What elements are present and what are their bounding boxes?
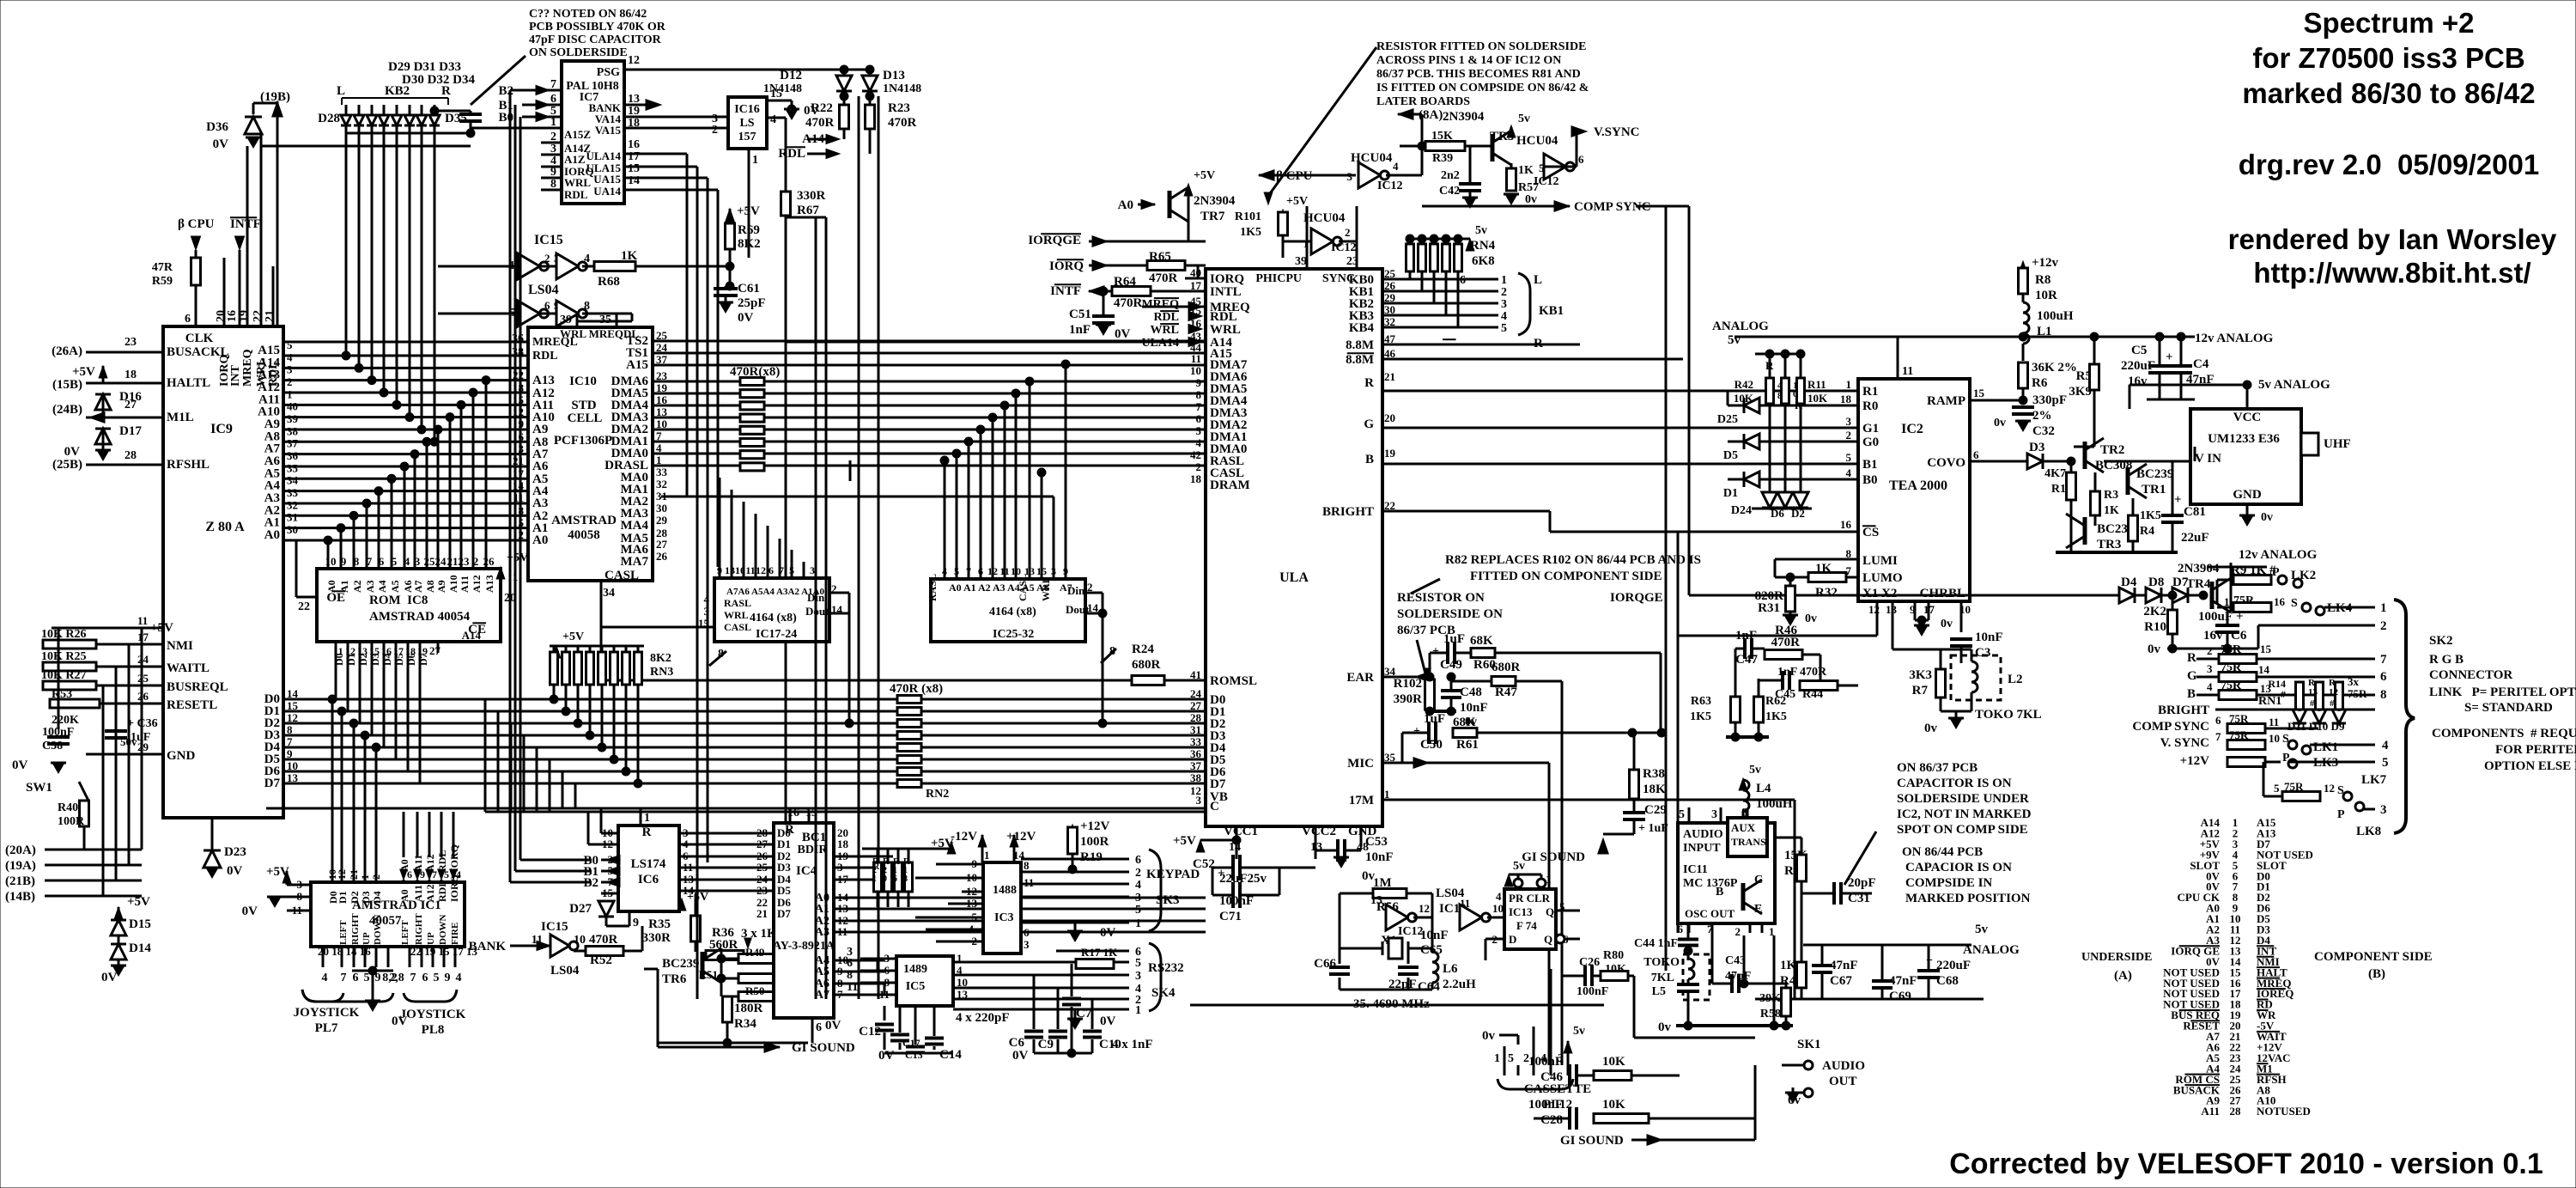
svg-text:10: 10 [2269,732,2280,745]
svg-text:A11: A11 [412,885,424,902]
svg-text:4: 4 [770,113,776,126]
svg-text:180R: 180R [734,1002,763,1015]
svg-text:R3: R3 [2104,489,2118,502]
svg-text:23: 23 [459,555,471,568]
svg-text:37: 37 [1190,759,1202,772]
svg-text:+12V: +12V [1080,819,1110,833]
svg-text:10: 10 [574,934,586,947]
svg-text:CASSETTE: CASSETTE [1524,1082,1591,1096]
svg-text:L4: L4 [1756,782,1771,795]
svg-text:20pF: 20pF [1848,876,1876,890]
svg-text:M1L: M1L [167,411,194,424]
svg-text:36: 36 [512,332,524,345]
svg-text:47pF DISC CAPACITOR: 47pF DISC CAPACITOR [529,34,662,46]
svg-text:0V: 0V [227,864,243,878]
svg-text:C50: C50 [1420,738,1443,752]
svg-text:MA7: MA7 [621,555,649,569]
svg-text:LEFT: LEFT [400,920,410,945]
svg-text:C28: C28 [1540,1113,1563,1127]
svg-text:6: 6 [769,564,774,576]
svg-text:A7: A7 [412,580,424,593]
svg-text:0V: 0V [1012,1049,1029,1063]
svg-text:18: 18 [1840,393,1852,405]
svg-text:IORQGE: IORQGE [1610,591,1663,605]
svg-text:R1: R1 [2051,483,2066,496]
svg-text:L: L [337,84,345,98]
svg-text:C13: C13 [905,1049,923,1061]
svg-text:B: B [2187,687,2196,701]
svg-text:A0: A0 [1118,198,1133,212]
svg-text:C51: C51 [1069,308,1091,321]
svg-text:A0: A0 [532,533,548,547]
svg-text:Q: Q [1544,933,1552,946]
svg-text:TR7: TR7 [1200,210,1225,223]
svg-text:16: 16 [226,310,239,322]
svg-text:C53: C53 [1365,835,1388,849]
svg-text:2,8: 2,8 [389,972,404,984]
svg-text:C6: C6 [1009,1036,1025,1050]
svg-text:8: 8 [1777,391,1783,401]
svg-text:C81: C81 [2184,505,2206,519]
svg-text:RS232: RS232 [1148,961,1184,975]
svg-text:DOWN: DOWN [438,915,448,946]
svg-text:G: G [1364,417,1374,431]
svg-text:28: 28 [2230,1105,2242,1118]
svg-text:IC16: IC16 [734,103,760,116]
svg-text:FITTED ON COMPONENT SIDE: FITTED ON COMPONENT SIDE [1470,570,1662,583]
svg-text:A12: A12 [471,575,483,593]
svg-text:HCU04: HCU04 [1516,134,1558,148]
svg-text:1488: 1488 [993,884,1017,897]
svg-text:rendered by Ian Worsley: rendered by Ian Worsley [2228,223,2557,255]
svg-text:Corrected by VELESOFT 2010 - v: Corrected by VELESOFT 2010 - version 0.1 [1949,1148,2543,1180]
svg-text:34: 34 [287,474,299,487]
svg-text:TOKO 7KL: TOKO 7KL [1975,708,2042,722]
svg-text:A0: A0 [325,580,337,593]
svg-text:LK7: LK7 [2361,773,2387,787]
svg-text:UNDERSIDE: UNDERSIDE [2081,951,2152,964]
svg-text:1K5: 1K5 [2140,509,2161,522]
svg-text:(19A): (19A) [5,859,36,873]
svg-text:12: 12 [336,869,348,880]
svg-text:41: 41 [1190,668,1201,681]
svg-text:100nF: 100nF [1528,1098,1563,1112]
svg-text:16: 16 [1840,518,1852,531]
svg-text:BUSACKL: BUSACKL [167,345,229,359]
svg-text:IS FITTED ON COMPSIDE ON 86/42: IS FITTED ON COMPSIDE ON 86/42 & [1376,82,1589,94]
svg-text:A6: A6 [532,460,549,473]
svg-text:28: 28 [125,449,137,462]
svg-text:(14B): (14B) [5,890,35,904]
svg-text:C9: C9 [1038,1038,1054,1051]
svg-text:RN3: RN3 [650,666,673,679]
svg-text:D3: D3 [777,861,791,874]
svg-text:IC6: IC6 [638,873,659,886]
svg-text:R68: R68 [598,275,620,289]
svg-text:10: 10 [735,564,745,576]
svg-text:Spectrum +2: Spectrum +2 [2304,7,2475,39]
svg-text:G: G [2187,669,2197,683]
svg-text:D1: D1 [777,838,791,850]
svg-text:6: 6 [893,874,897,884]
svg-text:RESISTOR FITTED ON SOLDERSIDE: RESISTOR FITTED ON SOLDERSIDE [1376,40,1586,53]
svg-text:R0: R0 [1862,399,1878,413]
svg-text:LK2: LK2 [2291,569,2316,582]
svg-text:X1 X2: X1 X2 [1862,587,1897,600]
svg-text:12v ANALOG: 12v ANALOG [2239,548,2318,562]
svg-text:330R: 330R [642,931,671,945]
svg-text:MARKED POSITION: MARKED POSITION [1905,892,2031,905]
svg-text:15: 15 [2260,643,2272,655]
svg-text:TR4: TR4 [2186,577,2211,591]
svg-text:Z 80 A: Z 80 A [205,520,245,534]
svg-text:8: 8 [1196,388,1202,401]
svg-text:17: 17 [393,645,404,657]
svg-text:36: 36 [1190,747,1202,760]
svg-text:HCU04: HCU04 [1303,211,1346,225]
svg-text:R52: R52 [590,953,612,967]
svg-text:MIC: MIC [1347,757,1374,771]
svg-text:10K: 10K [1807,392,1828,405]
svg-text:RFSHL: RFSHL [167,458,210,472]
svg-text:7: 7 [367,555,373,568]
svg-text:4K7: 4K7 [2044,467,2066,480]
svg-text:0: 0 [883,874,887,884]
svg-text:25: 25 [756,861,769,874]
svg-text:470R: 470R [1114,296,1143,310]
svg-text:5: 5 [2274,782,2280,795]
svg-text:25: 25 [137,672,149,685]
svg-text:33: 33 [287,486,299,499]
svg-text:GI SOUND: GI SOUND [1560,1134,1624,1148]
svg-text:A5: A5 [389,580,401,593]
svg-text:11: 11 [333,645,343,657]
svg-text:A10: A10 [447,575,459,593]
svg-text:12: 12 [1419,902,1430,915]
svg-text:29: 29 [656,514,668,527]
svg-text:470R: 470R [1771,636,1801,649]
svg-text:1: 1 [359,874,371,880]
svg-text:R8: R8 [2035,273,2050,287]
svg-text:0v: 0v [1482,1029,1496,1043]
svg-text:IC3: IC3 [994,911,1014,924]
svg-text:A0: A0 [264,528,280,542]
svg-text:20 18 14 16: 20 18 14 16 [318,945,371,958]
svg-text:36: 36 [287,449,299,462]
svg-text:2: 2 [1846,429,1852,442]
svg-text:TR1: TR1 [2142,483,2166,497]
svg-text:C48: C48 [1460,685,1482,699]
svg-text:18K: 18K [1643,783,1666,796]
svg-text:NOTUSED: NOTUSED [2257,1105,2311,1118]
svg-text:LK8: LK8 [2356,825,2381,838]
svg-text:A0: A0 [398,889,410,902]
svg-text:OPTION ELSE NOT: OPTION ELSE NOT [2484,759,2576,773]
svg-text:ON 86/44 PCB: ON 86/44 PCB [1902,845,1983,859]
svg-text:R32: R32 [1815,586,1838,600]
svg-text:R: R [642,826,652,839]
svg-text:RAMP: RAMP [1927,394,1965,408]
svg-text:25pF: 25pF [738,296,766,310]
svg-text:R31: R31 [1758,601,1780,615]
svg-text:+12v: +12v [2032,256,2059,270]
svg-text:1: 1 [1135,1004,1141,1017]
svg-text:LS04: LS04 [550,964,580,978]
svg-text:0V: 0V [1100,1014,1116,1028]
svg-text:4: 4 [287,350,293,363]
svg-text:33: 33 [1190,735,1202,748]
svg-text:1: 1 [644,812,650,825]
svg-text:4: 4 [1777,381,1783,391]
svg-text:WAITL: WAITL [167,661,210,675]
svg-text:RDL: RDL [436,880,448,902]
svg-text:COMPSIDE IN: COMPSIDE IN [1905,876,1992,890]
svg-text:RDL: RDL [564,188,588,201]
svg-text:6: 6 [422,972,428,984]
svg-text:R47: R47 [1495,685,1517,699]
svg-text:A14: A14 [462,629,482,642]
svg-text:D14: D14 [129,941,151,955]
svg-text:4: 4 [1496,890,1502,903]
svg-text:27: 27 [756,838,769,850]
svg-text:220K: 220K [52,714,79,727]
svg-text:R61: R61 [1456,738,1479,752]
svg-text:IC9: IC9 [210,422,233,436]
svg-text:S= STANDARD: S= STANDARD [2464,701,2553,715]
svg-text:5v: 5v [1975,923,1989,936]
svg-text:(21B): (21B) [5,874,35,888]
svg-text:27: 27 [1190,699,1202,712]
svg-text:26: 26 [137,690,149,703]
svg-text:2K2: 2K2 [2143,605,2166,618]
svg-text:D5: D5 [1723,449,1738,462]
svg-text:5v: 5v [1518,113,1530,125]
svg-text:0v: 0v [2261,511,2273,524]
svg-text:GND: GND [2233,488,2262,502]
svg-text:1N4148: 1N4148 [883,82,921,95]
svg-text:3: 3 [1347,170,1353,183]
svg-text:LS174: LS174 [631,857,666,871]
svg-text:C26: C26 [1579,956,1600,969]
svg-text:INTF: INTF [230,217,261,231]
svg-text:R1: R1 [1862,385,1878,399]
svg-text:TR3: TR3 [2097,538,2121,551]
svg-text:7: 7 [341,972,347,984]
svg-text:100uH: 100uH [1756,797,1793,811]
svg-text:#: # [2310,698,2315,709]
svg-text:CASL: CASL [724,621,751,633]
svg-text:21: 21 [348,869,360,880]
svg-text:B: B [1365,453,1374,466]
svg-text:INPUT: INPUT [1683,842,1721,855]
svg-text:D3: D3 [360,891,372,904]
svg-text:A1Z: A1Z [564,153,586,166]
svg-text:6: 6 [816,1021,822,1034]
svg-text:1K5: 1K5 [1765,710,1787,723]
svg-text:+5V: +5V [1286,195,1308,208]
svg-text:V.SYNC: V.SYNC [1594,125,1640,139]
svg-text:SK2: SK2 [2429,634,2453,648]
svg-text:A15Z: A15Z [564,128,591,141]
svg-text:1489: 1489 [903,963,927,976]
svg-text:35: 35 [287,461,299,474]
svg-text:CONNECTOR: CONNECTOR [2429,668,2512,682]
svg-text:GI SOUND: GI SOUND [792,1041,855,1055]
svg-text:L5: L5 [1652,985,1666,998]
svg-text:A1: A1 [338,580,350,593]
svg-text:1N4148: 1N4148 [763,82,802,95]
svg-text:R11: R11 [1807,378,1826,391]
svg-text:IC13: IC13 [1509,905,1533,918]
svg-text:AUDIO: AUDIO [1683,828,1723,841]
svg-text:6: 6 [1196,412,1202,425]
svg-text:A9: A9 [532,423,548,436]
svg-text:R4: R4 [2140,525,2154,538]
svg-text:R101: R101 [1235,210,1261,223]
svg-text:31: 31 [287,511,298,524]
svg-text:22uF: 22uF [2181,531,2209,545]
svg-text:S: S [2291,597,2298,610]
svg-text:7: 7 [2215,730,2221,743]
svg-text:L6: L6 [1443,962,1458,976]
svg-text:WRL: WRL [724,609,749,621]
svg-text:INT: INT [229,364,242,387]
svg-text:R58: R58 [1760,1008,1781,1020]
svg-text:R40: R40 [58,801,78,814]
svg-text:8: 8 [354,555,360,568]
svg-text:1K5: 1K5 [1690,710,1711,723]
svg-text:6: 6 [1578,153,1584,166]
svg-text:R57: R57 [1518,181,1539,194]
svg-text:R42: R42 [1735,378,1753,391]
svg-text:17M: 17M [1349,794,1374,807]
svg-text:VCC2: VCC2 [1302,825,1336,838]
svg-text:IC11: IC11 [1683,863,1708,876]
svg-text:9: 9 [633,917,639,929]
svg-text:R10: R10 [2144,620,2166,634]
svg-text:4: 4 [404,555,410,568]
svg-text:RDL: RDL [1153,311,1179,324]
svg-text:IC2: IC2 [1901,422,1923,436]
svg-text:IORQ: IORQ [1210,272,1244,286]
svg-text:3: 3 [1196,794,1202,807]
svg-text:1: 1 [1135,917,1141,930]
svg-text:MREQ: MREQ [241,349,254,387]
svg-text:11: 11 [2269,716,2279,728]
svg-text:26: 26 [656,550,668,563]
svg-text:R38: R38 [1643,767,1665,781]
svg-text:PCB POSSIBLY 470K OR: PCB POSSIBLY 470K OR [529,21,666,34]
svg-text:IC17-24: IC17-24 [756,628,797,641]
svg-text:2N3904: 2N3904 [1443,110,1485,124]
svg-text:CASL: CASL [605,569,639,582]
svg-text:IC10: IC10 [569,375,597,388]
svg-text:for Z70500 iss3 PCB: for Z70500 iss3 PCB [2252,42,2524,74]
svg-text:G0: G0 [1862,436,1879,449]
svg-text:0v: 0v [1658,1020,1672,1034]
svg-text:http://www.8bit.ht.st/: http://www.8bit.ht.st/ [2253,257,2530,289]
svg-text:R: R [1364,376,1374,390]
svg-text:5v ANALOG: 5v ANALOG [2258,378,2330,392]
svg-text:WRL: WRL [1040,576,1052,601]
svg-text:23: 23 [756,884,769,897]
svg-text:1nF: 1nF [1777,666,1797,679]
svg-text:2: 2 [1196,460,1202,473]
svg-text:C5: C5 [2131,344,2147,357]
svg-text:+12V: +12V [1006,830,1036,844]
svg-text:17: 17 [137,631,149,643]
svg-text:5: 5 [392,555,398,568]
svg-text:BUSREQL: BUSREQL [167,680,228,694]
svg-text:0v: 0v [1525,193,1537,206]
svg-text:C46: C46 [1540,1070,1563,1084]
svg-text:R6: R6 [2032,376,2048,390]
svg-text:#: # [2281,688,2286,700]
svg-text:IC12: IC12 [1331,241,1357,254]
svg-text:D7: D7 [777,907,791,920]
svg-text:TR2: TR2 [2100,443,2124,457]
svg-text:IORQ: IORQ [1049,259,1084,273]
svg-text:1: 1 [1303,237,1309,250]
svg-text:(24B): (24B) [52,403,82,417]
svg-text:TR6: TR6 [662,972,687,986]
svg-text:R50: R50 [745,984,764,997]
svg-text:AUDIO: AUDIO [1822,1059,1865,1073]
svg-text:1: 1 [2380,601,2387,615]
svg-text:5: 5 [1508,1052,1514,1065]
svg-text:86/37 PCB. THIS BECOMES R81 A: 86/37 PCB. THIS BECOMES R81 AND [1376,68,1581,81]
svg-text:MC 1376P: MC 1376P [1683,877,1738,890]
svg-text:2: 2 [370,874,382,880]
svg-text:TOKO: TOKO [1643,956,1680,969]
svg-text:C71: C71 [1219,910,1242,923]
svg-text:32: 32 [656,478,667,490]
svg-text:4164 (x8): 4164 (x8) [989,606,1036,618]
svg-text:C14: C14 [939,1048,962,1062]
svg-text:R19: R19 [1080,850,1103,864]
svg-text:D13: D13 [883,69,905,82]
svg-text:A11: A11 [2201,1105,2220,1118]
svg-text:JOYSTICK: JOYSTICK [294,1006,360,1020]
svg-text:C44 1nF: C44 1nF [1634,937,1678,950]
svg-text:L2: L2 [2008,673,2023,686]
svg-text:D7: D7 [2172,576,2189,589]
svg-text:+5V: +5V [1194,169,1215,182]
svg-text:14: 14 [628,174,640,187]
svg-text:A4: A4 [376,580,388,593]
svg-text:19: 19 [417,645,428,657]
svg-text:18: 18 [125,369,137,381]
svg-text:16: 16 [628,138,640,151]
svg-text:18: 18 [837,838,849,850]
svg-text:FIRE: FIRE [450,923,460,945]
svg-text:8K2: 8K2 [738,237,761,251]
svg-text:FOR PERITEL: FOR PERITEL [2495,743,2576,757]
svg-text:4: 4 [456,868,461,880]
svg-text:D29 D31 D33: D29 D31 D33 [388,60,461,74]
svg-text:1: 1 [1501,274,1507,287]
svg-text:470R: 470R [805,116,835,130]
svg-text:V IN: V IN [2195,452,2221,466]
svg-text:UP: UP [361,932,372,945]
svg-text:6: 6 [544,299,550,312]
svg-text:B1: B1 [1862,458,1878,472]
svg-text:BC239: BC239 [2136,467,2173,481]
svg-text:47pF: 47pF [1725,970,1751,983]
svg-text:D12: D12 [780,69,802,82]
svg-text:34: 34 [603,587,615,600]
svg-text:38: 38 [287,424,299,437]
